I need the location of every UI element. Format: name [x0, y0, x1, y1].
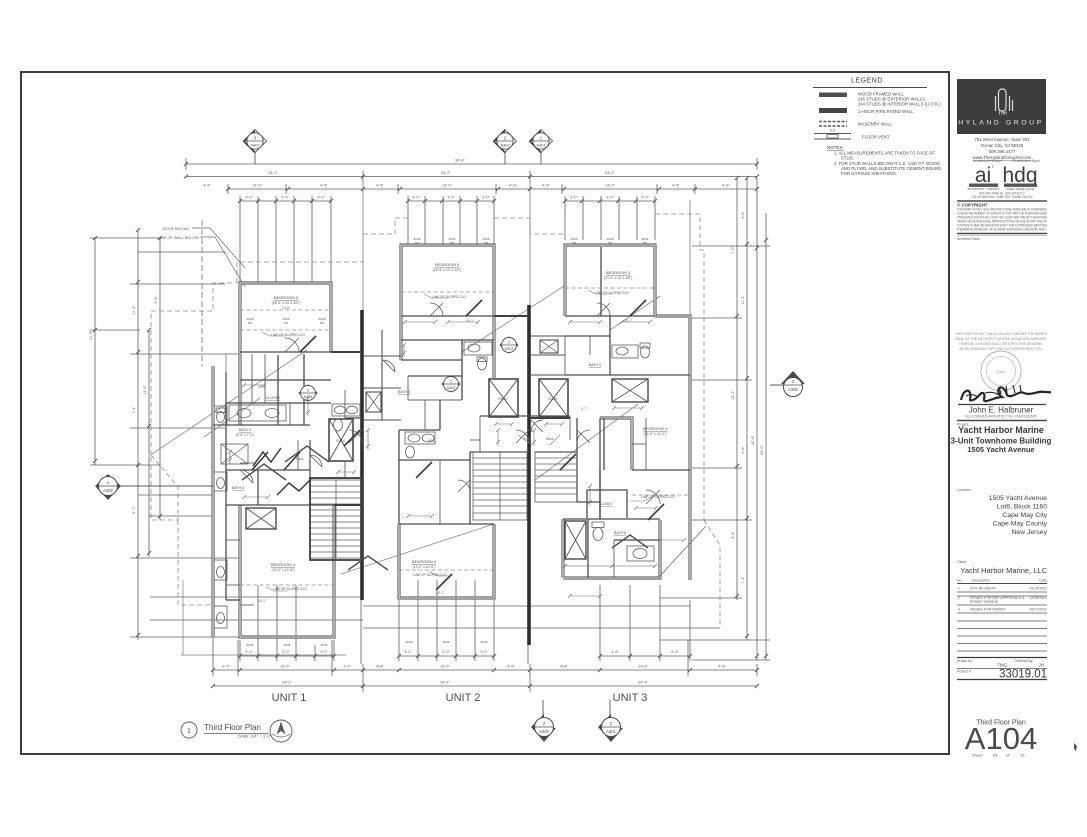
svg-text:ELEV.: ELEV.	[336, 439, 345, 443]
svg-text:7'-4": 7'-4"	[741, 576, 745, 584]
elevator unit3	[539, 379, 568, 417]
svg-text:Scale: 1/4" = 1'-0": Scale: 1/4" = 1'-0"	[238, 734, 272, 739]
svg-text:1: 1	[187, 728, 191, 735]
svg-text:7'-0": 7'-0"	[731, 246, 735, 254]
svg-text:AS AN ORIGINAL COPY AND NOT A: AS AN ORIGINAL COPY AND NOT A REPRODUCTI…	[959, 347, 1042, 351]
svg-text:3'-0": 3'-0"	[282, 650, 290, 654]
copyright rule	[957, 200, 1047, 202]
svg-text:BATH 5: BATH 5	[589, 363, 601, 367]
section callout 1/A301 top center right	[530, 130, 553, 165]
bath fixtures unit1 lower	[214, 472, 227, 628]
svg-text:Construction+Mgmt: Construction+Mgmt	[1012, 159, 1040, 163]
north arrow	[270, 720, 292, 742]
bottom dimension labels	[222, 650, 726, 685]
svg-text:42'-8": 42'-8"	[751, 435, 755, 445]
svg-text:F.V.: F.V.	[830, 129, 836, 133]
svg-text:A302: A302	[103, 488, 113, 493]
svg-text:Location:: Location:	[957, 488, 972, 492]
svg-text:03/17/2022: 03/17/2022	[1029, 608, 1047, 612]
left dimension lines	[90, 228, 240, 640]
shaft unit3 lower	[565, 521, 586, 559]
unit3 right exterior wall	[655, 316, 690, 580]
svg-text:A304: A304	[447, 386, 456, 390]
svg-text:3'-0": 3'-0"	[480, 650, 488, 654]
hall partitions center	[480, 415, 529, 417]
svg-text:2x4 STUDS @ INTERIOR WALLS (U.: 2x4 STUDS @ INTERIOR WALLS (U.O.N.)	[858, 102, 941, 107]
svg-text:CLOSET: CLOSET	[266, 396, 281, 400]
svg-text:Description: Description	[972, 579, 990, 583]
svg-text:SH: SH	[572, 241, 576, 245]
svg-text:PERMISSION OF HYLAND DESIGN GR: PERMISSION OF HYLAND DESIGN GROUP, INC.	[957, 228, 1047, 232]
svg-text:A302: A302	[250, 143, 260, 148]
svg-text:3'-0": 3'-0"	[412, 196, 420, 200]
svg-text:(13'-0" x 12'-6"): (13'-0" x 12'-6")	[271, 568, 294, 572]
signature scrawl	[961, 387, 1051, 401]
svg-text:LINE OF SLOPED CLG: LINE OF SLOPED CLG	[273, 587, 307, 591]
svg-text:4'-6": 4'-6"	[376, 665, 384, 669]
svg-text:13'-0": 13'-0"	[605, 184, 615, 188]
window tick row U2	[399, 655, 494, 657]
unit2 hall walls	[408, 399, 462, 401]
svg-text:3'-0": 3'-0"	[317, 196, 325, 200]
svg-text:3'-0": 3'-0"	[442, 650, 450, 654]
svg-text:13'-0": 13'-0"	[442, 184, 452, 188]
svg-text:ISSUED FOR PERMIT: ISSUED FOR PERMIT	[970, 608, 1006, 612]
stairs unit3	[535, 452, 577, 502]
misc interior dim texts	[258, 319, 632, 603]
overall unit dim row	[213, 685, 757, 687]
unit2 bedroom5 walls	[401, 245, 494, 316]
svg-text:SITE REVISION: SITE REVISION	[970, 587, 996, 591]
svg-text:3'-0": 3'-0"	[245, 650, 253, 654]
unit3 bedroom4 walls	[600, 418, 632, 470]
svg-text:4'-8": 4'-8"	[611, 650, 619, 654]
roof ridge diagonals	[152, 350, 307, 454]
exterior and party walls	[213, 245, 690, 645]
svg-text:3'-0": 3'-0"	[606, 196, 614, 200]
elevator unit1	[329, 419, 353, 461]
unit3 corner roof diagonal	[658, 526, 706, 578]
svg-text:HEREON. A RAISED SEAL CERTIFIE: HEREON. A RAISED SEAL CERTIFIES THIS DRA…	[959, 342, 1043, 346]
bold door leaves	[252, 300, 664, 590]
svg-text:John E. Halbruner: John E. Halbruner	[969, 406, 1034, 415]
svg-text:4'-6": 4'-6"	[741, 211, 745, 219]
svg-text:609.398.4477: 609.398.4477	[989, 149, 1016, 154]
hall small walls center	[479, 416, 481, 452]
svg-text:A301: A301	[606, 729, 616, 734]
section callout 2/A303 bottom	[531, 700, 556, 742]
svg-text:SH: SH	[484, 241, 488, 245]
svg-text:Architect Seal:: Architect Seal:	[957, 237, 980, 241]
legend masonry wall symbol	[819, 121, 847, 123]
roof below annotation	[158, 227, 245, 287]
drawing frame border	[21, 72, 949, 754]
svg-text:14'-6": 14'-6"	[143, 385, 147, 395]
svg-text:(16'-9" x 13'-1 1/2"): (16'-9" x 13'-1 1/2")	[433, 268, 462, 272]
svg-text:13'-0": 13'-0"	[280, 665, 290, 669]
svg-text:LINE OF WALL BELOW: LINE OF WALL BELOW	[158, 236, 199, 240]
svg-text:UNIT 3: UNIT 3	[613, 692, 648, 704]
svg-text:A302: A302	[500, 143, 510, 148]
long horizontals under plan	[150, 596, 363, 598]
svg-text:A302: A302	[788, 387, 798, 392]
svg-text:LINE OF SLOPED CLG: LINE OF SLOPED CLG	[595, 291, 629, 295]
svg-text:3'-2": 3'-2"	[222, 665, 230, 669]
svg-text:7'-4": 7'-4"	[132, 406, 136, 414]
svg-text:HALL: HALL	[428, 439, 437, 443]
svg-text:33019.01: 33019.01	[999, 669, 1047, 681]
svg-text:ELEV.: ELEV.	[548, 397, 557, 401]
Hyland Group logo box	[957, 79, 1046, 134]
svg-text:(16'-9" x 13'-1 1/2"): (16'-9" x 13'-1 1/2")	[272, 301, 301, 305]
unit3 bottom walls	[563, 520, 660, 578]
unit2 left wall	[400, 316, 403, 360]
svg-text:A104: A104	[965, 721, 1037, 756]
svg-text:BEDROOM 4: BEDROOM 4	[412, 559, 437, 564]
svg-text:3.: 3.	[958, 608, 961, 612]
svg-text:BEDROOM 3: BEDROOM 3	[606, 270, 631, 275]
svg-text:3'-0": 3'-0"	[482, 196, 490, 200]
svg-text:UNIT 1: UNIT 1	[272, 692, 307, 704]
wall hollow cores	[213, 245, 690, 637]
svg-text:11'-2": 11'-2"	[132, 305, 136, 315]
svg-text:15'-1": 15'-1"	[436, 591, 444, 595]
svg-text:(9'-6" x 7'-0"): (9'-6" x 7'-0")	[236, 433, 254, 437]
unit1 partitions	[240, 351, 331, 353]
svg-text:6'-8": 6'-8"	[671, 650, 679, 654]
svg-text:21'-6": 21'-6"	[89, 330, 93, 340]
svg-text:SH: SH	[450, 241, 454, 245]
svg-text:Date: Date	[1039, 579, 1047, 583]
svg-text:3'-0": 3'-0"	[447, 196, 455, 200]
bottom dimension lines	[150, 580, 759, 692]
interior dim stubs texture	[228, 320, 686, 598]
shaft unit3 bath	[612, 379, 648, 402]
svg-text:13'-2": 13'-2"	[731, 390, 735, 400]
svg-text:4'-6": 4'-6"	[672, 184, 680, 188]
svg-text:JH: JH	[1038, 663, 1044, 668]
svg-text:2046: 2046	[247, 643, 254, 647]
svg-text:SH: SH	[608, 241, 612, 245]
interior callout 2/A304 unit1 upper	[299, 385, 317, 401]
svg-text:24'-2": 24'-2"	[441, 171, 451, 175]
title bubble	[181, 722, 197, 738]
svg-text:24'-2": 24'-2"	[605, 171, 615, 175]
extension stubs from plan down	[212, 600, 214, 664]
svg-text:3'-0": 3'-0"	[281, 196, 289, 200]
interior partitions	[213, 247, 690, 600]
drawn by block	[957, 657, 1047, 659]
window tick row U1	[240, 655, 334, 657]
svg-text:1505 Yacht Avenue: 1505 Yacht Avenue	[967, 445, 1034, 454]
overall dim line 96'-8"	[186, 163, 757, 165]
shaft unit1 lower	[246, 508, 276, 529]
svg-text:LINE OF SLOPED CLG: LINE OF SLOPED CLG	[641, 495, 675, 499]
svg-text:13'-0": 13'-0"	[252, 184, 262, 188]
bath fixtures unit1 mid	[332, 404, 360, 431]
svg-text:2.: 2.	[958, 596, 961, 600]
svg-text:CLOSET: CLOSET	[599, 502, 613, 506]
svg-text:4'-6": 4'-6"	[507, 665, 515, 669]
svg-text:3'-0": 3'-0"	[641, 196, 649, 200]
tick row U3	[600, 655, 690, 657]
copyright bottom rule	[957, 233, 1047, 235]
unit3 bedroom3 walls	[565, 245, 655, 316]
bath fixtures unit2 right	[464, 342, 492, 370]
unit3 closet walls	[645, 418, 647, 470]
section callout 2/A301 bottom	[598, 700, 623, 742]
interior callout 2/A304 unit2	[500, 337, 518, 353]
svg-text:12/09/2021: 12/09/2021	[1029, 596, 1047, 600]
stairs unit1	[310, 480, 362, 558]
unit2 left strip walls	[363, 330, 401, 420]
svg-text:Drawn by:: Drawn by:	[957, 659, 973, 663]
svg-text:11'-4": 11'-4"	[741, 295, 745, 305]
svg-text:Lot6, Block 1160: Lot6, Block 1160	[997, 504, 1047, 511]
unit1 left wall upper	[239, 352, 242, 425]
svg-text:FLOOR VENT: FLOOR VENT	[862, 135, 890, 140]
party wall extension lines	[226, 182, 690, 402]
svg-text:THIS SHEET IS NOT VALID UNLESS: THIS SHEET IS NOT VALID UNLESS IT BEARS …	[955, 332, 1048, 336]
svg-text:Architecture+Design: Architecture+Design	[973, 159, 1002, 163]
svg-text:24'-2": 24'-2"	[638, 681, 648, 685]
svg-text:3'-0": 3'-0"	[245, 196, 253, 200]
page artifact mark	[1074, 743, 1077, 751]
right rotated dim labels	[731, 211, 764, 584]
signature rule	[958, 404, 1046, 406]
svg-text:Sheet: Sheet	[972, 753, 983, 758]
svg-text:15'-1": 15'-1"	[624, 319, 632, 323]
svg-text:4'-6": 4'-6"	[542, 184, 550, 188]
svg-text:SH: SH	[248, 321, 252, 325]
porch outline bottom left	[181, 580, 346, 655]
svg-text:PERMIT REVIEW: PERMIT REVIEW	[970, 600, 999, 604]
svg-text:15'-1": 15'-1"	[466, 319, 474, 323]
title block column	[951, 79, 1077, 758]
unit1 left bath wall	[212, 366, 215, 637]
svg-text:A304: A304	[505, 347, 514, 351]
svg-text:(13'-0" x 12'-6"): (13'-0" x 12'-6")	[412, 565, 435, 569]
left extra connectors	[138, 220, 226, 516]
svg-text:SEAL OF THE ARCHITECT WHOSE SI: SEAL OF THE ARCHITECT WHOSE SIGNATURE AP…	[956, 337, 1047, 341]
svg-text:9'-7": 9'-7"	[132, 506, 136, 514]
bath fixtures unit3 lower	[563, 522, 657, 568]
unit1 bedroom3 walls	[240, 283, 331, 352]
unit1 closet dividers	[251, 354, 253, 403]
svg-text:1.: 1.	[958, 587, 961, 591]
svg-text:Client:: Client:	[957, 560, 967, 564]
svg-text:UNIT 2: UNIT 2	[446, 692, 481, 704]
svg-text:15'-1": 15'-1"	[258, 385, 266, 389]
per-unit dim row	[213, 669, 757, 671]
svg-text:96'-8": 96'-8"	[455, 159, 465, 163]
svg-text:10: 10	[1020, 753, 1025, 758]
svg-text:BEDROOM 3: BEDROOM 3	[274, 295, 299, 300]
svg-text:2046: 2046	[481, 640, 488, 644]
unit3 bath band walls	[562, 519, 565, 578]
svg-text:architecture + interiors: architecture + interiors	[967, 187, 999, 191]
unit2 bedroom4 walls	[399, 524, 494, 598]
stair core walls unit1	[310, 478, 362, 560]
svg-text:BATH 6: BATH 6	[614, 531, 626, 535]
svg-text:LINE OF SLOPED CLG: LINE OF SLOPED CLG	[432, 295, 466, 299]
floor plan	[89, 130, 805, 743]
Hyland Group building icon	[996, 89, 1013, 111]
unit1 bedroom4 walls	[240, 505, 334, 637]
svg-text:3'-0": 3'-0"	[404, 650, 412, 654]
svg-text:4'-6": 4'-6"	[203, 184, 211, 188]
svg-text:BEDROOM 5: BEDROOM 5	[435, 262, 460, 267]
svg-text:HALL: HALL	[546, 437, 555, 441]
section callout 3/A302 top left	[244, 130, 267, 165]
section callout 2/A302 top center	[494, 130, 517, 165]
svg-text:Ocean City, NJ 08226: Ocean City, NJ 08226	[981, 143, 1024, 148]
bath fixtures unit3 upper	[612, 343, 650, 358]
roof below dashed outline	[151, 214, 720, 628]
svg-text:1505 Yacht Avenue: 1505 Yacht Avenue	[989, 495, 1047, 502]
svg-text:ELEV.: ELEV.	[498, 397, 507, 401]
svg-text:2046: 2046	[321, 643, 328, 647]
svg-text:HYLAND GROUP: HYLAND GROUP	[958, 120, 1044, 127]
svg-text:4'-6": 4'-6"	[376, 184, 384, 188]
svg-text:5'-3": 5'-3"	[524, 437, 530, 441]
svg-text:13'-0": 13'-0"	[440, 665, 450, 669]
third tier dim segments	[228, 188, 363, 190]
section callout 3/A302 right side	[770, 371, 805, 397]
top dimension lines	[184, 158, 759, 282]
svg-text:4'-6": 4'-6"	[560, 665, 568, 669]
legend floor vent symbol	[814, 133, 851, 135]
elevator unit2	[489, 379, 518, 417]
unit labels	[272, 692, 648, 704]
svg-text:03/15/2021: 03/15/2021	[1029, 587, 1047, 591]
second tier dim line 48'-4"	[186, 176, 757, 178]
room labels	[232, 237, 676, 647]
svg-text:(13'-0" x 13'-1 1/2"): (13'-0" x 13'-1 1/2")	[604, 276, 633, 280]
unit2 right wall upper	[493, 316, 496, 378]
svg-text:24'-2": 24'-2"	[282, 681, 292, 685]
svg-text:1-HOUR FIRE RATED WALL: 1-HOUR FIRE RATED WALL	[858, 109, 914, 114]
svg-text:13'-0": 13'-0"	[638, 665, 648, 669]
svg-text:24'-2": 24'-2"	[268, 171, 278, 175]
svg-text:Cape May City: Cape May City	[1002, 512, 1047, 519]
svg-text:SH: SH	[415, 241, 419, 245]
bath fixtures unit2 left	[405, 432, 435, 458]
svg-text:21AI01: 21AI01	[996, 370, 1006, 374]
unit3 closet room	[587, 490, 627, 518]
svg-text:ROOF BELOW: ROOF BELOW	[163, 227, 189, 231]
svg-text:BATH 3: BATH 3	[398, 390, 410, 394]
unit3 left strip walls	[529, 336, 565, 432]
svg-text:SH: SH	[320, 321, 324, 325]
svg-text:HALL: HALL	[296, 457, 305, 461]
svg-text:3'-0": 3'-0"	[570, 196, 578, 200]
svg-text:9'-6": 9'-6"	[731, 531, 735, 539]
project rules	[957, 420, 1047, 422]
svg-text:9'-6": 9'-6"	[741, 446, 745, 454]
door zigzags unit1	[253, 448, 311, 495]
svg-text:4'-7": 4'-7"	[581, 407, 587, 411]
svg-text:BATH 4: BATH 4	[232, 486, 244, 490]
unit3 partitions	[565, 315, 655, 317]
svg-text:Project #:: Project #:	[957, 670, 972, 674]
svg-text:751 W West Ave, Suite 301, Oce: 751 W West Ave, Suite 301, Ocean City NJ	[971, 195, 1032, 199]
extra interior partitions for density	[226, 336, 646, 605]
svg-text:4'-6": 4'-6"	[722, 184, 730, 188]
unit1/unit2 party wall	[360, 310, 364, 600]
leader squiggles texture	[262, 290, 652, 591]
svg-text:NJ LICENSED ARCHITECT No. 21AI: NJ LICENSED ARCHITECT No. 21AI01733500	[965, 415, 1036, 419]
svg-text:LEGEND: LEGEND	[851, 78, 883, 85]
svg-text:FOR GYPSUM SHEATHING.: FOR GYPSUM SHEATHING.	[841, 171, 897, 176]
svg-text:4'-6": 4'-6"	[320, 184, 328, 188]
legend 1-hour fire rated wall bar	[819, 108, 847, 113]
svg-text:15'-1": 15'-1"	[258, 599, 266, 603]
svg-text:No.: No.	[957, 579, 963, 583]
svg-text:BATH 2: BATH 2	[239, 428, 251, 432]
svg-text:STUD.: STUD.	[841, 156, 854, 161]
right dimension lines	[660, 176, 770, 660]
svg-text:04: 04	[993, 753, 998, 758]
left rotated dim labels	[89, 296, 158, 514]
svg-text:NOTES:: NOTES:	[827, 145, 844, 150]
svg-text:LINE OF SLOPED CLG: LINE OF SLOPED CLG	[271, 333, 305, 337]
svg-text:Checked by:: Checked by:	[1014, 659, 1033, 663]
unit2/unit3 party wall	[527, 305, 531, 645]
svg-text:A301: A301	[536, 143, 546, 148]
unit2 partitions	[401, 315, 494, 317]
legend wood framed wall bar	[819, 93, 847, 98]
window tick rows U2	[408, 200, 494, 202]
svg-text:2046: 2046	[443, 640, 450, 644]
window tick rows U1	[240, 200, 331, 202]
top dimension labels	[203, 159, 730, 200]
window tick rows U3	[565, 200, 655, 202]
legend rule	[813, 87, 927, 89]
interior callout 2/A304 unit2 low	[442, 376, 460, 392]
svg-text:50'-0": 50'-0"	[760, 445, 764, 455]
svg-text:The: The	[998, 111, 1007, 117]
svg-text:SH: SH	[284, 321, 288, 325]
svg-text:TMG: TMG	[997, 663, 1008, 668]
svg-text:A303: A303	[539, 729, 549, 734]
svg-text:4'-6": 4'-6"	[509, 184, 517, 188]
svg-text:Cape May County: Cape May County	[993, 521, 1048, 528]
svg-text:751 West Avenue, Suite 301: 751 West Avenue, Suite 301	[974, 137, 1030, 142]
svg-text:Yacht Harbor Marine: Yacht Harbor Marine	[958, 425, 1044, 435]
gable peak marks	[242, 446, 648, 570]
svg-text:Third Floor Plan: Third Floor Plan	[204, 723, 261, 732]
legend block	[813, 78, 941, 177]
sloped ceiling dashed lines	[240, 288, 690, 585]
svg-text:New Jersey: New Jersey	[1011, 529, 1047, 536]
section callout 1/A302 left side	[95, 474, 213, 500]
svg-text:BEDROOM 4: BEDROOM 4	[271, 562, 296, 567]
plan title	[181, 720, 292, 742]
svg-text:2046: 2046	[406, 640, 413, 644]
svg-text:3'-6": 3'-6"	[154, 296, 158, 304]
svg-text:N: N	[280, 725, 283, 730]
door swings	[240, 303, 660, 504]
svg-text:3'-2": 3'-2"	[343, 665, 351, 669]
wall connectors	[331, 316, 570, 505]
svg-text:Yacht Harbor Marine, LLC: Yacht Harbor Marine, LLC	[960, 566, 1047, 575]
architect seal circle	[981, 351, 1021, 391]
svg-text:3'-0": 3'-0"	[320, 650, 328, 654]
svg-text:LINE OF SLOPED CLG: LINE OF SLOPED CLG	[413, 573, 447, 577]
svg-text:2046: 2046	[284, 643, 291, 647]
svg-text:hyland design group: hyland design group	[1006, 187, 1035, 191]
